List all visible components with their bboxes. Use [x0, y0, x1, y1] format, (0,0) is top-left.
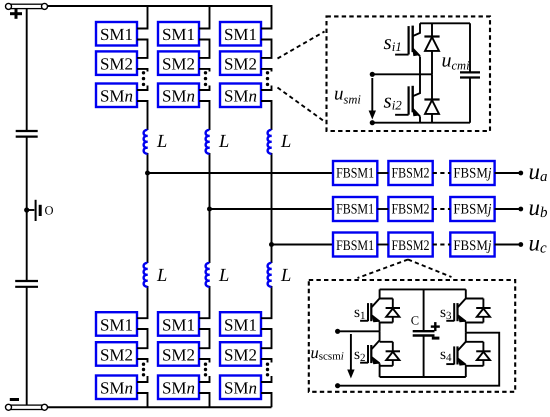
svg-text:SM2: SM2	[162, 345, 195, 364]
ellipsis dots (more SMs, phase-a upper arm)	[142, 71, 145, 86]
ellipsis dots (more SMs, phase-b lower arm)	[204, 363, 207, 377]
svg-text:FBSMj: FBSMj	[453, 201, 491, 217]
wire: FBSM1 to FBSM2 (phase-a)	[377, 172, 388, 174]
ellipsis dots (more SMs, phase-b upper arm)	[204, 71, 207, 86]
wire: phase-c upper arm series chain	[261, 5, 272, 245]
dashed callout line (SM to inset, upper)	[278, 32, 325, 59]
diode D3	[476, 299, 490, 323]
node: output terminal ua	[518, 171, 523, 176]
node: phase-a junction	[145, 171, 150, 176]
svg-text:L: L	[218, 266, 229, 286]
svg-text:SM1: SM1	[162, 25, 195, 44]
capacitor C-dc upper	[16, 131, 38, 137]
label - (negative DC terminal)	[10, 398, 19, 401]
svg-text:FBSM1: FBSM1	[336, 201, 374, 217]
svg-text:FBSM2: FBSM2	[392, 165, 430, 181]
submodule SMn (phase-a upper arm)	[96, 84, 137, 108]
wire: inset1 midpoint wire	[372, 73, 432, 75]
wire: phase-a output line	[148, 172, 334, 174]
submodule SMn (phase-c upper arm)	[220, 84, 261, 108]
ellipsis dots (more SMs, phase-a lower arm)	[142, 363, 145, 377]
wire: phase-c lower arm series chain	[261, 245, 272, 408]
arm inductor L (phase-c lower arm)	[268, 263, 272, 287]
wire: dashed continuation FBSM2..FBSMj (phase-c)	[433, 244, 451, 246]
arm inductor L (phase-b upper arm)	[206, 130, 210, 154]
IGBT s1	[360, 289, 380, 322]
submodule SM2 (phase-b upper arm)	[158, 51, 199, 75]
diode D_i1 (antiparallel with s_i1)	[424, 32, 439, 59]
svg-text:L: L	[218, 132, 229, 152]
svg-text:SM2: SM2	[224, 345, 257, 364]
dashed border of half-bridge inset	[327, 16, 491, 131]
wire: phase-b lower arm series chain	[199, 209, 210, 407]
node O (DC midpoint)	[24, 200, 53, 221]
node: phase-c junction	[269, 242, 274, 247]
wire: FBSMj to output ua	[495, 172, 519, 174]
node: phase-b junction	[207, 207, 212, 212]
node: FBSM terminal upper	[335, 329, 340, 334]
svg-text:s1: s1	[354, 304, 366, 322]
wire: inset1 capacitor branch	[469, 23, 471, 122]
svg-text:FBSM1: FBSM1	[336, 238, 374, 254]
node: output terminal uc	[518, 242, 523, 247]
capacitor C_mi	[460, 72, 480, 77]
submodule SMn (phase-a lower arm)	[96, 376, 137, 400]
label + (capacitor polarity)	[431, 322, 440, 331]
wire: inset2 H-bridge bottom rail	[380, 376, 466, 378]
label + (positive DC terminal)	[10, 9, 22, 19]
full-bridge submodule FBSMj (phase-b string)	[450, 197, 494, 221]
svg-text:SM1: SM1	[100, 25, 133, 44]
svg-text:s3: s3	[440, 304, 452, 322]
arm inductor L (phase-b lower arm)	[206, 263, 210, 287]
svg-text:ua: ua	[529, 159, 548, 185]
svg-text:SM1: SM1	[224, 315, 257, 334]
IGBT s2	[360, 331, 380, 364]
node: output terminal ub	[518, 207, 523, 212]
dashed border of full-bridge inset	[309, 280, 515, 392]
wire: diode D1 loop	[380, 299, 393, 323]
submodule SMn (phase-b lower arm)	[158, 376, 199, 400]
svg-text:s2: s2	[354, 346, 366, 364]
svg-text:s4: s4	[440, 346, 452, 364]
submodule SM1 (phase-a upper arm)	[96, 22, 137, 46]
wire: FBSMj to output ub	[495, 208, 519, 210]
IGBT s_i2	[395, 84, 420, 117]
wire: FBSM1 to FBSM2 (phase-b)	[377, 208, 388, 210]
IGBT s_i1	[395, 23, 420, 56]
submodule SMn (phase-c lower arm)	[220, 376, 261, 400]
wire: phase-c output line	[272, 244, 334, 246]
svg-text:si2: si2	[384, 89, 403, 113]
svg-text:uc: uc	[529, 231, 548, 257]
svg-text:SMn: SMn	[162, 379, 195, 398]
wire: FBSMj to output uc	[495, 244, 519, 246]
submodule SM1 (phase-a lower arm)	[96, 312, 137, 336]
full-bridge submodule FBSM2 (phase-a string)	[388, 161, 432, 185]
svg-text:SM2: SM2	[100, 55, 133, 74]
node: FBSM terminal lower	[335, 383, 340, 388]
full-bridge submodule FBSM2 (phase-c string)	[388, 233, 432, 257]
wire: top DC bus	[48, 5, 272, 7]
svg-text:FBSM2: FBSM2	[392, 238, 430, 254]
svg-text:FBSMj: FBSMj	[453, 238, 491, 254]
wire: inset2 H-bridge top rail	[380, 288, 466, 290]
svg-text:SM2: SM2	[162, 55, 195, 74]
wire: diode D3 loop	[466, 299, 484, 323]
dashed callout line (SM to inset, lower)	[278, 88, 325, 122]
wire: dashed continuation FBSM2..FBSMj (phase-b)	[433, 208, 451, 210]
wire: phase-a upper arm series chain	[137, 5, 148, 173]
svg-text:SMn: SMn	[100, 379, 133, 398]
svg-text:L: L	[280, 266, 291, 286]
wire: FBSM terminal lower loop to right leg midpoint	[338, 333, 500, 386]
wire: diode D2 loop	[380, 342, 393, 366]
capacitor C (FBSM dc-link)	[413, 331, 435, 335]
wire: dashed continuation FBSM2..FBSMj (phase-a)	[433, 172, 451, 174]
submodule SMn (phase-b upper arm)	[158, 84, 199, 108]
svg-text:SM2: SM2	[100, 345, 133, 364]
svg-text:FBSM1: FBSM1	[336, 165, 374, 181]
wire: s4 emitter to bottom rail	[465, 365, 467, 377]
full-bridge submodule FBSM1 (phase-b string)	[333, 197, 377, 221]
submodule SM1 (phase-c upper arm)	[220, 22, 261, 46]
svg-text:SM1: SM1	[100, 315, 133, 334]
full-bridge submodule FBSM1 (phase-c string)	[333, 233, 377, 257]
wire: inset1 top rail	[420, 22, 470, 24]
full-bridge submodule FBSMj (phase-a string)	[450, 161, 494, 185]
svg-text:uscsmi: uscsmi	[311, 343, 344, 363]
arm inductor L (phase-a lower arm)	[144, 263, 148, 287]
svg-text:SM1: SM1	[224, 25, 257, 44]
ellipsis dots (more SMs, phase-c upper arm)	[266, 71, 269, 86]
IGBT s4	[446, 333, 466, 366]
wire: s2 emitter to bottom rail	[379, 363, 381, 377]
dashed callout line (FBSM2 to inset, right)	[408, 260, 452, 278]
svg-text:SMn: SMn	[162, 87, 195, 106]
dashed callout line (FBSM2 to inset, left)	[358, 260, 409, 279]
node: SM terminal lower	[370, 120, 375, 125]
wire: s_i2 collector from midpoint / emitter to bottom	[419, 74, 421, 122]
ellipsis dots (more SMs, phase-c lower arm)	[266, 363, 269, 377]
voltage arrow u_scsmi	[347, 334, 354, 379]
voltage arrow u_smi	[369, 78, 376, 120]
wire: diode D4 loop	[466, 342, 484, 366]
wire: right leg midpoint	[465, 322, 467, 333]
submodule SM1 (phase-b lower arm)	[158, 312, 199, 336]
svg-text:C: C	[411, 313, 419, 327]
svg-text:L: L	[280, 132, 291, 152]
wire: diode D_i1 branch	[431, 23, 433, 74]
submodule SM2 (phase-c upper arm)	[220, 51, 261, 75]
svg-text:SM2: SM2	[224, 55, 257, 74]
wire: FBSM terminal upper to left leg midpoint	[338, 330, 380, 332]
wire: left DC link vertical	[26, 9, 28, 406]
diode D1	[386, 299, 400, 323]
svg-text:O: O	[45, 204, 54, 218]
wire: phase-b output line	[210, 208, 334, 210]
submodule SM1 (phase-b upper arm)	[158, 22, 199, 46]
DC terminal bottom-left	[6, 404, 48, 410]
full-bridge submodule FBSMj (phase-c string)	[450, 233, 494, 257]
svg-text:L: L	[156, 132, 167, 152]
svg-text:FBSM2: FBSM2	[392, 201, 430, 217]
wire: diode D_i2 branch	[431, 74, 433, 122]
svg-text:SMn: SMn	[100, 87, 133, 106]
wire: FBSM1 to FBSM2 (phase-c)	[377, 244, 388, 246]
wire: inset2 capacitor branch	[423, 289, 425, 377]
node: SM terminal upper	[370, 72, 375, 77]
submodule SM2 (phase-b lower arm)	[158, 342, 199, 366]
label - (capacitor polarity)	[432, 337, 440, 340]
IGBT s3	[446, 289, 466, 322]
wire: phase-a lower arm series chain	[137, 173, 148, 407]
svg-text:si1: si1	[384, 30, 402, 54]
DC terminal top-left	[6, 3, 48, 9]
full-bridge submodule FBSM2 (phase-b string)	[388, 197, 432, 221]
svg-text:SMn: SMn	[224, 87, 257, 106]
diode D_i2 (antiparallel with s_i2)	[424, 95, 439, 122]
submodule SM2 (phase-c lower arm)	[220, 342, 261, 366]
svg-text:SM1: SM1	[162, 315, 195, 334]
diode D2	[386, 342, 400, 366]
svg-text:ub: ub	[529, 195, 549, 221]
wire: bottom DC bus	[48, 406, 272, 408]
submodule SM1 (phase-c lower arm)	[220, 312, 261, 336]
submodule SM2 (phase-a upper arm)	[96, 51, 137, 75]
svg-text:FBSMj: FBSMj	[453, 165, 491, 181]
wire: left leg midpoint	[379, 322, 381, 332]
submodule SM2 (phase-a lower arm)	[96, 342, 137, 366]
arm inductor L (phase-c upper arm)	[268, 130, 272, 154]
svg-text:SMn: SMn	[224, 379, 257, 398]
svg-text:ucmi: ucmi	[442, 49, 471, 72]
full-bridge submodule FBSM1 (phase-a string)	[333, 161, 377, 185]
svg-text:L: L	[156, 266, 167, 286]
wire: phase-b upper arm series chain	[199, 5, 210, 209]
svg-text:usmi: usmi	[334, 84, 361, 107]
diode D4	[476, 342, 490, 366]
capacitor C-dc lower	[15, 281, 38, 287]
wire: inset1 bottom rail	[372, 122, 470, 124]
arm inductor L (phase-a upper arm)	[144, 130, 148, 154]
wire: s_i1 emitter to midpoint	[419, 57, 421, 75]
